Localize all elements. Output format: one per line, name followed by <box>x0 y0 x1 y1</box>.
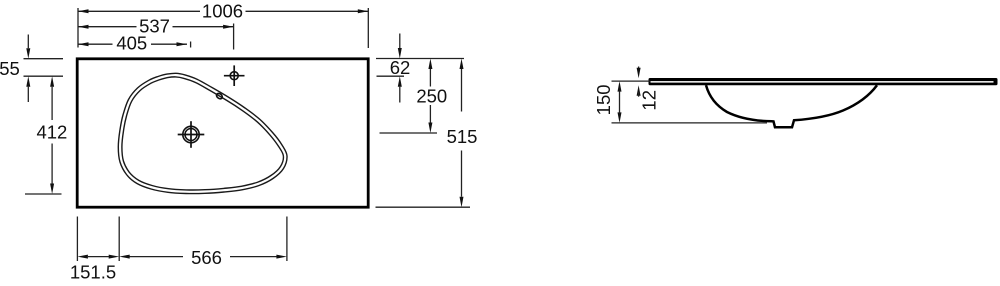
svg-text:150: 150 <box>593 84 614 115</box>
svg-text:566: 566 <box>191 247 222 268</box>
svg-text:412: 412 <box>36 122 67 143</box>
svg-text:55: 55 <box>0 58 20 79</box>
svg-text:1006: 1006 <box>202 0 243 21</box>
svg-text:405: 405 <box>116 32 147 53</box>
svg-text:515: 515 <box>447 126 478 147</box>
svg-text:12: 12 <box>639 90 660 111</box>
svg-text:250: 250 <box>416 85 447 106</box>
svg-text:151.5: 151.5 <box>70 262 116 283</box>
svg-text:62: 62 <box>390 57 411 78</box>
